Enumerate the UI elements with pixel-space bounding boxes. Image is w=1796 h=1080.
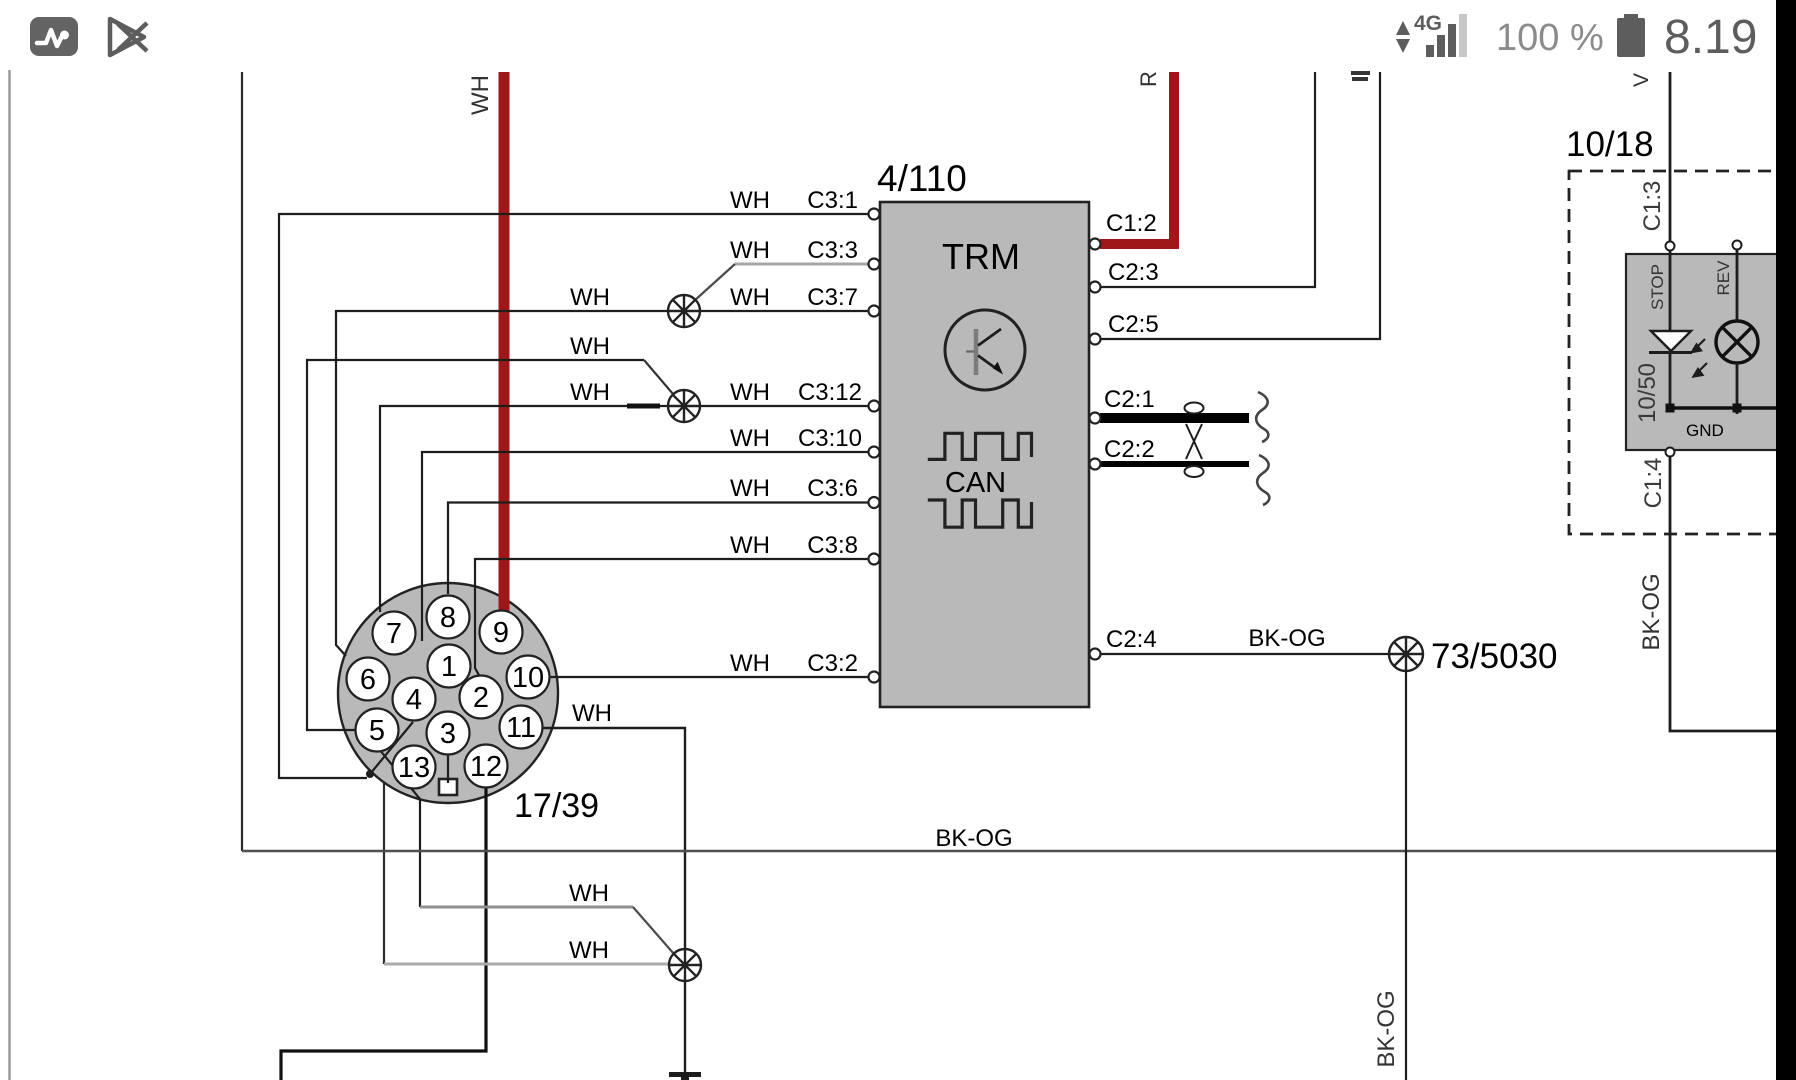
wire C3:3 (gray) bbox=[735, 263, 868, 266]
svg-text:WH: WH bbox=[730, 379, 770, 406]
svg-text:12: 12 bbox=[470, 751, 502, 783]
svg-text:WH: WH bbox=[730, 284, 770, 311]
LED arrows bbox=[1692, 339, 1707, 377]
BK-OG ground bus wire bbox=[242, 850, 1776, 853]
wire diagonal to connector pin 4 bbox=[370, 722, 413, 774]
svg-text:C3:12: C3:12 bbox=[798, 379, 862, 406]
dashed component box 10/18 bbox=[1569, 171, 1796, 534]
svg-text:GND: GND bbox=[1686, 421, 1724, 440]
svg-text:WH: WH bbox=[730, 425, 770, 452]
svg-text:WH: WH bbox=[572, 700, 612, 727]
svg-text:8.19: 8.19 bbox=[1664, 11, 1757, 64]
reverse lamp wire upper bbox=[1736, 249, 1739, 321]
svg-text:C2:1: C2:1 bbox=[1104, 386, 1155, 413]
junction dot rev bbox=[1733, 404, 1742, 413]
status bar play store icon bbox=[110, 19, 147, 55]
unit pin C1:4 bbox=[1666, 448, 1675, 457]
svg-text:C3:8: C3:8 bbox=[807, 532, 858, 559]
svg-text:17/39: 17/39 bbox=[514, 787, 599, 825]
stop LED wire lower bbox=[1669, 352, 1672, 408]
svg-text:10/50: 10/50 bbox=[1634, 363, 1661, 423]
control unit 4/110 TRM box bbox=[880, 202, 1089, 707]
svg-text:4: 4 bbox=[406, 684, 422, 716]
wire from splice down bbox=[1405, 671, 1407, 1080]
wire diagonal into splice 2 bbox=[644, 360, 673, 394]
svg-text:WH: WH bbox=[570, 333, 610, 360]
wire from pin 12 thick L-shape bbox=[281, 787, 486, 1080]
svg-text:V: V bbox=[1630, 73, 1653, 87]
splice 3 (bottom) bbox=[669, 949, 701, 981]
status bar signal bars bbox=[1426, 14, 1467, 57]
wire C3:8 to pin 2 bbox=[475, 559, 868, 677]
unit pin REV top bbox=[1733, 241, 1742, 250]
wire C3:7 bbox=[336, 311, 868, 656]
wire C2:4 to splice 73/5030 bbox=[1100, 653, 1389, 655]
svg-text:3: 3 bbox=[440, 718, 456, 750]
wire C3:1 bbox=[279, 214, 868, 778]
junction dot stop bbox=[1666, 404, 1675, 413]
svg-text:C3:10: C3:10 bbox=[798, 425, 862, 452]
svg-text:7: 7 bbox=[386, 618, 402, 650]
wire labels left column WH bbox=[569, 284, 612, 964]
wire C3:10 bbox=[422, 452, 868, 641]
svg-text:R: R bbox=[1136, 71, 1161, 87]
svg-text:C2:3: C2:3 bbox=[1108, 259, 1159, 286]
wire C3:3 diagonal into splice bbox=[694, 264, 735, 301]
svg-text:8: 8 bbox=[440, 602, 456, 634]
GND bus in unit bbox=[1670, 406, 1796, 409]
svg-text:WH: WH bbox=[730, 237, 770, 264]
svg-text:13: 13 bbox=[398, 752, 430, 784]
wire WH gray upper (to bottom splice) bbox=[420, 906, 633, 909]
wire C2:1 twisted pair thick bbox=[1100, 413, 1249, 423]
wire C1:3 from top bbox=[1669, 72, 1672, 242]
svg-text:BK-OG: BK-OG bbox=[1248, 625, 1325, 652]
pin 3 stub to square bbox=[447, 754, 449, 783]
wire vertical from pin 13 area bbox=[383, 783, 385, 964]
screen right black strip bbox=[1776, 0, 1796, 1080]
svg-text:REV: REV bbox=[1714, 260, 1733, 296]
wire red from C1:2 up bbox=[1100, 72, 1174, 244]
connector keying square bbox=[439, 779, 457, 795]
red supply wire to pin 9 bbox=[499, 72, 510, 611]
svg-text:BK-OG: BK-OG bbox=[1373, 990, 1400, 1067]
wire WH to connector pin 5 bbox=[307, 360, 644, 730]
svg-text:C2:4: C2:4 bbox=[1106, 626, 1157, 653]
svg-text:10/18: 10/18 bbox=[1566, 125, 1654, 164]
twisted pair symbol bbox=[1185, 403, 1204, 478]
svg-text:CAN: CAN bbox=[945, 467, 1006, 499]
wire C2:3 bbox=[1100, 72, 1315, 287]
unit pin C1:3 bbox=[1666, 242, 1675, 251]
wire WH gray lower (to bottom splice) bbox=[384, 963, 669, 966]
svg-text:C1:3: C1:3 bbox=[1639, 181, 1666, 232]
svg-text:C2:5: C2:5 bbox=[1108, 311, 1159, 338]
svg-text:TRM: TRM bbox=[942, 236, 1020, 277]
wire C3:6 to pin 8 bbox=[448, 503, 868, 595]
stop LED (diode symbol) bbox=[1651, 331, 1691, 351]
svg-text:WH: WH bbox=[730, 650, 770, 677]
connector cavity pins 1-13 bbox=[347, 596, 550, 789]
page left edge line bbox=[8, 70, 11, 1080]
TRM left pins bbox=[869, 209, 880, 683]
splice 1 bbox=[668, 295, 700, 327]
splice 2 bbox=[668, 390, 700, 422]
svg-text:9: 9 bbox=[493, 617, 509, 649]
svg-text:100 %: 100 % bbox=[1496, 17, 1604, 59]
svg-text:1: 1 bbox=[441, 651, 457, 683]
wire C3:2 from pin 10 bbox=[549, 676, 868, 678]
svg-text:WH: WH bbox=[467, 75, 494, 115]
label T cut at bottom edge bbox=[669, 1072, 701, 1080]
svg-text:6: 6 bbox=[360, 664, 376, 696]
wire C3:12 bbox=[380, 406, 868, 612]
wire C2:5 bbox=[1100, 72, 1380, 339]
svg-text:WH: WH bbox=[569, 880, 609, 907]
splice 73/5030 bbox=[1389, 637, 1423, 671]
wire labels mid column WH bbox=[730, 187, 770, 677]
pin labels right side bbox=[1104, 210, 1159, 653]
diagonal into bottom splice bbox=[633, 907, 674, 954]
pin designation labels C3:x bbox=[798, 187, 862, 677]
wire C1:4 down and right bbox=[1670, 456, 1796, 731]
svg-text:WH: WH bbox=[730, 475, 770, 502]
wire from pin 11 down to splice bbox=[542, 728, 685, 1080]
transistor symbol in TRM bbox=[945, 310, 1025, 390]
stop LED wire upper bbox=[1669, 250, 1672, 331]
svg-text:11: 11 bbox=[506, 712, 536, 744]
svg-text:2: 2 bbox=[473, 682, 489, 714]
reverse lamp wire lower bbox=[1736, 363, 1739, 414]
svg-text:WH: WH bbox=[730, 532, 770, 559]
svg-text:C3:6: C3:6 bbox=[807, 475, 858, 502]
svg-text:WH: WH bbox=[570, 284, 610, 311]
svg-text:C2:2: C2:2 bbox=[1104, 436, 1155, 463]
wire C2:2 twisted pair bbox=[1100, 461, 1249, 467]
svg-text:WH: WH bbox=[569, 937, 609, 964]
status bar battery icon bbox=[1617, 14, 1645, 57]
svg-text:4/110: 4/110 bbox=[877, 158, 967, 199]
svg-text:C1:2: C1:2 bbox=[1106, 210, 1157, 237]
wire diagonal from pin 5 down bbox=[379, 749, 420, 907]
svg-text:C3:1: C3:1 bbox=[807, 187, 858, 214]
junction dot pin4 wire bbox=[366, 770, 374, 778]
left bus vertical wire x=242 bbox=[241, 72, 243, 851]
svg-text:C3:3: C3:3 bbox=[807, 237, 858, 264]
wire break squiggle C2:1 bbox=[1256, 392, 1268, 442]
svg-text:C3:7: C3:7 bbox=[807, 284, 858, 311]
svg-text:WH: WH bbox=[730, 187, 770, 214]
cut label near C2:5 wire bbox=[1351, 71, 1370, 81]
svg-text:4G: 4G bbox=[1414, 12, 1442, 35]
svg-text:C3:2: C3:2 bbox=[807, 650, 858, 677]
svg-text:10: 10 bbox=[512, 662, 544, 694]
svg-text:BK-OG: BK-OG bbox=[935, 825, 1012, 852]
svg-text:WH: WH bbox=[570, 379, 610, 406]
status bar app icon (pulse monitor) bbox=[30, 17, 78, 56]
connector 17/39 body bbox=[338, 583, 558, 803]
CAN symbol upper waveform bbox=[928, 433, 1032, 459]
svg-text:BK-OG: BK-OG bbox=[1638, 573, 1665, 650]
svg-text:5: 5 bbox=[369, 715, 385, 747]
svg-text:73/5030: 73/5030 bbox=[1431, 637, 1558, 676]
reverse lamp symbol bbox=[1716, 321, 1758, 363]
lamp unit gray box bbox=[1626, 254, 1796, 450]
svg-text:C1:4: C1:4 bbox=[1640, 458, 1667, 509]
TRM right pins bbox=[1090, 239, 1101, 660]
status bar up/down arrows bbox=[1396, 21, 1410, 53]
CAN symbol lower waveform bbox=[928, 500, 1032, 527]
wire break squiggle C2:2 bbox=[1257, 455, 1269, 505]
svg-text:STOP: STOP bbox=[1648, 264, 1667, 310]
thick dash on C3:12 wire bbox=[627, 404, 660, 409]
